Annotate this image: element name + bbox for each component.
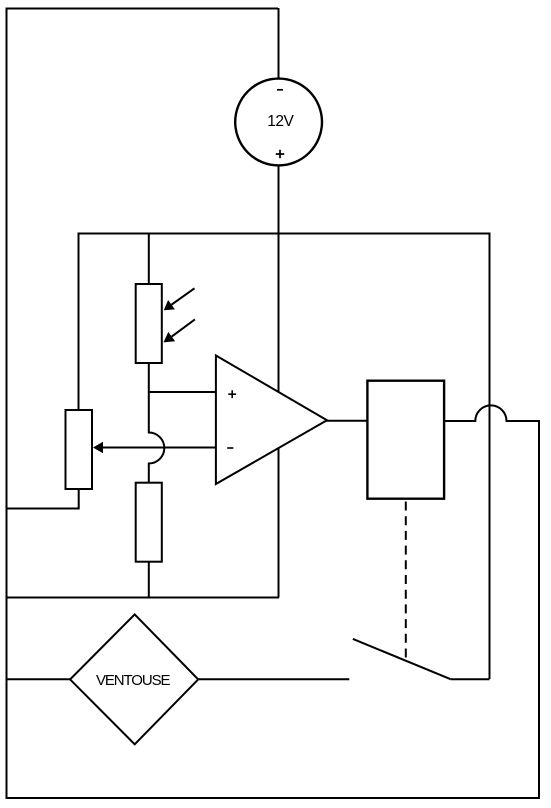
svg-text:12V: 12V bbox=[267, 113, 294, 130]
svg-text:VENTOUSE: VENTOUSE bbox=[96, 672, 171, 689]
